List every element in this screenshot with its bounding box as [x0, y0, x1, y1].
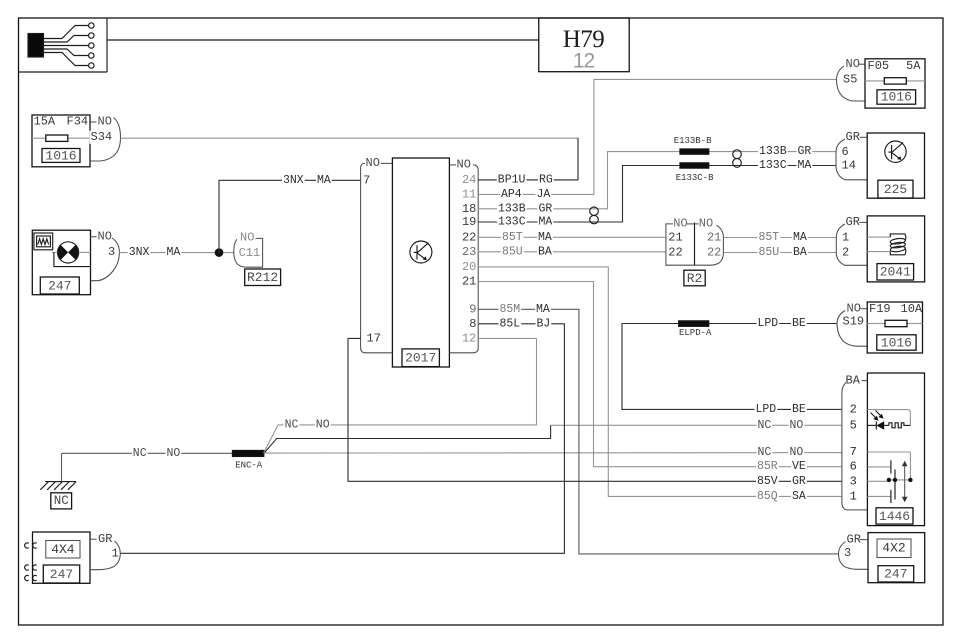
splice ELPD-A bar	[679, 321, 709, 326]
svg-text:JA: JA	[537, 188, 551, 201]
svg-text:MA: MA	[539, 216, 553, 229]
connector R2 divider	[694, 223, 696, 266]
svg-text:GR: GR	[792, 475, 806, 488]
svg-text:BA: BA	[793, 246, 807, 259]
component box 1446	[867, 373, 924, 526]
svg-text:1: 1	[112, 546, 119, 560]
svg-text:S34: S34	[91, 130, 113, 144]
splice ENC-A bar	[233, 451, 264, 457]
fuse F19 symbol	[885, 320, 907, 326]
svg-text:1: 1	[850, 489, 857, 503]
svg-text:18: 18	[462, 202, 476, 216]
svg-text:3NX: 3NX	[129, 246, 150, 259]
svg-text:LPD: LPD	[756, 403, 777, 416]
wire branch ENC-A to 1446 pin 5 (NC-NO)	[264, 425, 551, 453]
svg-text:4X4: 4X4	[51, 542, 75, 557]
svg-text:85R: 85R	[757, 460, 778, 473]
svg-text:NC: NC	[285, 418, 299, 431]
wire 133C-MA pin 19 to connector 225 pin 14	[478, 166, 836, 223]
svg-text:GR: GR	[798, 145, 812, 158]
svg-text:17: 17	[367, 332, 381, 346]
svg-text:BA: BA	[538, 245, 552, 258]
svg-text:NO: NO	[98, 115, 112, 129]
svg-text:1446: 1446	[879, 509, 910, 524]
svg-text:NO: NO	[790, 446, 804, 459]
svg-text:4X2: 4X2	[882, 541, 905, 556]
247 inner label box (bottom left)	[43, 565, 79, 583]
unit label 1016 (F34)	[42, 149, 80, 163]
svg-text:GR: GR	[847, 532, 861, 546]
svg-text:19: 19	[462, 215, 476, 229]
svg-text:MA: MA	[536, 303, 550, 316]
247 inner label box (bottom right)	[878, 566, 914, 582]
component box 4X2 / 247	[868, 533, 925, 583]
fuse box F19 10A unit 1016	[867, 302, 922, 353]
component box 4X4 / 247	[33, 532, 91, 583]
svg-text:133C: 133C	[759, 159, 787, 172]
logo connector icon	[28, 34, 44, 58]
svg-text:E133B-B: E133B-B	[674, 136, 712, 146]
svg-text:3: 3	[850, 474, 857, 488]
svg-text:85T: 85T	[759, 231, 780, 244]
broken-wire curls (4X4)	[25, 543, 29, 548]
wire AP4-JA pin 11 to fuse S5	[478, 79, 836, 194]
component box 225	[867, 133, 924, 198]
component box 247 (alarm sounder)	[32, 230, 90, 295]
svg-text:85L: 85L	[500, 317, 521, 330]
svg-text:NO: NO	[790, 419, 804, 432]
svg-text:14: 14	[842, 158, 856, 172]
svg-text:5: 5	[850, 419, 857, 433]
svg-text:C11: C11	[239, 246, 261, 260]
svg-text:BE: BE	[792, 403, 806, 416]
wire 2017 pin 12 stub	[478, 337, 536, 339]
svg-text:NO: NO	[98, 230, 112, 244]
fuse box F05 5A unit 1016	[865, 59, 925, 108]
connector GR pin 3 bracket (4X2)	[860, 539, 869, 541]
svg-text:21: 21	[707, 231, 721, 245]
svg-text:MA: MA	[167, 246, 181, 259]
2041 coil symbol	[867, 236, 890, 238]
svg-text:GR: GR	[98, 532, 112, 546]
fuse box F34 15A unit 1016	[32, 115, 90, 167]
svg-text:ELPD-A: ELPD-A	[679, 328, 712, 338]
connector BA bracket (1446)	[862, 380, 868, 382]
unit label 1016 (F05)	[877, 90, 916, 104]
twisted pair marker near 2017	[590, 207, 599, 215]
connector S34 bracket	[90, 121, 97, 123]
svg-text:1016: 1016	[881, 90, 912, 105]
svg-text:2: 2	[842, 246, 849, 260]
connector R2 right bracket	[710, 225, 723, 265]
svg-text:BA: BA	[846, 373, 861, 387]
wire 85U-BA R2 to 2041 pin 2	[723, 252, 836, 254]
unit label 2041	[877, 264, 914, 280]
svg-text:MA: MA	[317, 174, 331, 187]
svg-text:LPD: LPD	[758, 317, 779, 330]
svg-text:133C: 133C	[498, 216, 526, 229]
svg-text:7: 7	[363, 174, 370, 188]
svg-text:2041: 2041	[880, 265, 911, 280]
wire 85L-BJ pin 8 to connector 4X4	[120, 324, 564, 554]
svg-text:F19: F19	[869, 302, 891, 316]
225 relay symbol K	[885, 141, 906, 162]
svg-text:1016: 1016	[881, 335, 912, 350]
svg-text:S5: S5	[843, 72, 857, 86]
connector bracket NO pin 3 (247)	[91, 236, 97, 238]
svg-text:133B: 133B	[759, 145, 787, 158]
svg-text:247: 247	[884, 567, 907, 582]
connector GR pin 1 bracket (4X4)	[90, 538, 97, 540]
title box H79	[539, 18, 629, 72]
svg-text:F34: F34	[67, 115, 89, 129]
wire NC-NO ground to ENC-A	[62, 452, 233, 454]
svg-text:23: 23	[462, 245, 476, 259]
svg-text:AP4: AP4	[501, 188, 522, 201]
svg-text:133B: 133B	[498, 202, 526, 215]
svg-text:NC: NC	[758, 446, 772, 459]
wire ground riser	[61, 453, 63, 481]
svg-text:1016: 1016	[45, 148, 76, 163]
wire 85T-MA pin 22 to R2	[478, 236, 666, 238]
svg-text:GR: GR	[846, 130, 860, 144]
svg-text:22: 22	[462, 230, 476, 244]
junction node 3NX	[215, 248, 224, 257]
svg-text:15A: 15A	[34, 115, 56, 129]
ground label NC box	[51, 493, 72, 509]
svg-text:MA: MA	[798, 159, 812, 172]
1446 switch icon	[867, 451, 910, 453]
svg-text:VE: VE	[792, 460, 806, 473]
svg-text:22: 22	[707, 246, 721, 260]
connector S19 bracket	[861, 308, 868, 310]
svg-text:2017: 2017	[405, 351, 436, 366]
splice E133B-B bar	[680, 149, 709, 154]
svg-text:247: 247	[50, 567, 73, 582]
svg-text:5A: 5A	[906, 59, 921, 73]
unit label 1016 (F19)	[877, 335, 916, 350]
unit label 2017	[402, 349, 439, 367]
247 internal wiring	[52, 251, 58, 253]
svg-text:NO: NO	[240, 230, 254, 244]
1446 rain-light sensor icon (photodiode + resistor)	[867, 410, 910, 426]
unit label R212	[245, 269, 281, 286]
svg-text:NO: NO	[316, 418, 330, 431]
svg-text:3: 3	[108, 245, 115, 259]
svg-text:MA: MA	[793, 231, 807, 244]
splice E133C-B bar	[680, 163, 709, 168]
ground symbol NC	[45, 481, 76, 483]
svg-text:NC: NC	[758, 419, 772, 432]
wire 2017 pin 21 to 1446 pin 6 (85R-VE)	[478, 282, 842, 467]
svg-text:85M: 85M	[500, 303, 521, 316]
svg-text:SA: SA	[792, 490, 806, 503]
svg-text:RG: RG	[539, 173, 553, 186]
svg-text:8: 8	[469, 317, 476, 331]
wire 3NX-MA from 247 pin 3 to connector C11	[119, 252, 233, 254]
wire BP1U-RG pin 24 to fuse S34	[121, 138, 579, 180]
svg-text:21: 21	[462, 275, 476, 289]
svg-text:BJ: BJ	[537, 317, 551, 330]
svg-text:85Q: 85Q	[757, 490, 778, 503]
wire ENC-A to 1446 pin 7 (NC-NO)	[264, 452, 842, 455]
svg-text:7: 7	[850, 445, 857, 459]
connector GR bracket (2041)	[860, 221, 868, 223]
svg-text:2: 2	[850, 402, 857, 416]
2017 right connector bracket NO	[449, 165, 478, 353]
svg-text:NO: NO	[673, 217, 687, 231]
svg-text:85U: 85U	[759, 246, 780, 259]
svg-text:NO: NO	[699, 217, 713, 231]
svg-text:BP1U: BP1U	[498, 173, 526, 186]
svg-text:NC: NC	[54, 494, 69, 508]
in-line connector C11	[234, 238, 263, 267]
wire 2017 pin 20 to 1446 pin 1 (85Q-SA)	[478, 267, 842, 497]
unit label 247	[40, 277, 79, 294]
unit label R2	[684, 270, 705, 286]
4X2 inner label box	[877, 539, 911, 558]
svg-text:22: 22	[668, 246, 682, 260]
wire LPD-BE ELPD-A to fuse S19	[709, 323, 837, 325]
wire branch ENC-A to 2017 pin 12 (NC-NO)	[264, 338, 537, 453]
connector GR bracket (225)	[860, 136, 868, 138]
wire 133B-GR pin 18 to connector 225 pin 6	[478, 152, 836, 209]
2017 left connector bracket NO	[361, 163, 393, 352]
component box 2041 (solenoid)	[867, 216, 924, 282]
247 sounder symbol (quadrant circle)	[58, 242, 79, 263]
1446 actuator double arrow	[904, 465, 906, 499]
svg-text:12: 12	[462, 331, 476, 345]
svg-text:9: 9	[469, 302, 476, 316]
control unit 2017 box	[392, 158, 449, 367]
svg-text:NO: NO	[366, 156, 380, 170]
wire 85M-MA pin 9 to connector 4X2	[478, 309, 838, 554]
svg-text:12: 12	[573, 49, 595, 72]
unit label 1446	[876, 508, 913, 524]
svg-text:MA: MA	[538, 231, 552, 244]
connector S5 bracket	[859, 63, 866, 65]
wire 2017 pin 17 to 1446 pin 3 (85V-GR)	[348, 338, 842, 481]
fuse F34 symbol	[46, 135, 68, 141]
svg-text:NO: NO	[167, 447, 181, 460]
svg-text:NO: NO	[457, 158, 471, 172]
svg-text:S19: S19	[843, 314, 865, 328]
svg-text:225: 225	[884, 182, 907, 197]
twisted pair marker near 225	[733, 150, 742, 159]
svg-text:6: 6	[850, 460, 857, 474]
247 waveform sub-box	[34, 233, 53, 250]
unit label 225	[878, 180, 913, 198]
svg-text:6: 6	[842, 145, 849, 159]
wire 85U-BA pin 23 to R2	[478, 251, 666, 253]
header logo cell divider	[106, 18, 108, 72]
svg-text:E133C-B: E133C-B	[676, 173, 714, 183]
wire LPD-BE to 1446 pin 2	[622, 324, 842, 410]
svg-text:NC: NC	[133, 447, 147, 460]
svg-text:3NX: 3NX	[283, 174, 304, 187]
fuse F05 symbol	[884, 78, 906, 84]
svg-text:85U: 85U	[502, 245, 523, 258]
svg-text:GR: GR	[539, 202, 553, 215]
svg-text:85T: 85T	[502, 231, 523, 244]
svg-text:20: 20	[462, 260, 476, 274]
fuse F34 internal wire	[32, 137, 90, 139]
svg-text:11: 11	[462, 187, 476, 201]
svg-text:BE: BE	[792, 317, 806, 330]
svg-text:85V: 85V	[757, 475, 778, 488]
4X4 inner label box	[46, 541, 80, 559]
svg-text:21: 21	[668, 231, 682, 245]
connector R2 left bracket	[666, 224, 710, 265]
svg-text:F05: F05	[868, 59, 890, 73]
svg-text:GR: GR	[846, 215, 860, 229]
svg-text:ENC-A: ENC-A	[235, 460, 263, 470]
svg-text:R212: R212	[247, 270, 278, 285]
svg-text:24: 24	[462, 173, 476, 187]
wire 85T-MA R2 to 2041 pin 1	[723, 237, 836, 239]
wire 3NX-MA riser to 2017 pin 7	[219, 180, 361, 252]
svg-text:3: 3	[844, 546, 851, 560]
header horizontal rule	[107, 39, 539, 41]
svg-text:247: 247	[48, 278, 71, 293]
svg-text:10A: 10A	[901, 302, 923, 316]
svg-text:1: 1	[842, 231, 849, 245]
2017 relay symbol K	[410, 241, 432, 263]
svg-text:R2: R2	[687, 271, 703, 286]
svg-text:NO: NO	[846, 57, 860, 71]
